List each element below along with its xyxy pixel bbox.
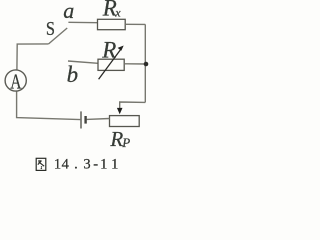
battery positive plate (long) [80, 111, 82, 128]
slider arrow onto RP [117, 108, 123, 114]
resistor Rx label [102, 0, 122, 20]
arrow through R (variable symbol) [99, 46, 124, 80]
svg-text:4: 4 [62, 156, 70, 172]
svg-text:A: A [10, 70, 22, 93]
svg-text:3: 3 [83, 156, 90, 172]
svg-text:1: 1 [100, 156, 107, 172]
svg-text:R: R [109, 127, 123, 151]
svg-text:a: a [63, 0, 74, 23]
wire (contact b to R) [68, 61, 98, 63]
svg-text:x: x [114, 6, 121, 20]
svg-text:P: P [121, 135, 130, 150]
wire (battery to left rail) [17, 91, 81, 119]
svg-text:1: 1 [54, 156, 61, 172]
svg-text:1: 1 [111, 156, 118, 172]
caption: figure character (tu) [36, 158, 46, 170]
resistor R box (variable) [98, 59, 124, 70]
svg-text:-: - [93, 156, 98, 172]
switch S blade [49, 28, 68, 44]
wire (right vertical rail) [144, 24, 146, 102]
ammeter A circle [5, 70, 26, 91]
wire (top-left corner segment from ammeter up and right to switch) [17, 44, 49, 70]
battery negative plate (short thick) [84, 116, 86, 124]
rheostat RP label [109, 127, 130, 151]
wire (contact a to Rx) [68, 21, 97, 23]
caption: figure number 14.3-11 [54, 156, 118, 172]
resistor Rx box [98, 19, 126, 29]
wire (R to junction) [124, 63, 146, 65]
wire (right rail down to slider feed) [120, 102, 146, 108]
rheostat RP box [110, 116, 140, 127]
junction node dot [144, 62, 149, 67]
svg-text:.: . [74, 156, 78, 172]
wire (Rx to right rail) [125, 23, 145, 25]
wire (RP to battery) [87, 118, 110, 121]
svg-text:S: S [46, 18, 55, 40]
svg-text:b: b [67, 62, 79, 87]
